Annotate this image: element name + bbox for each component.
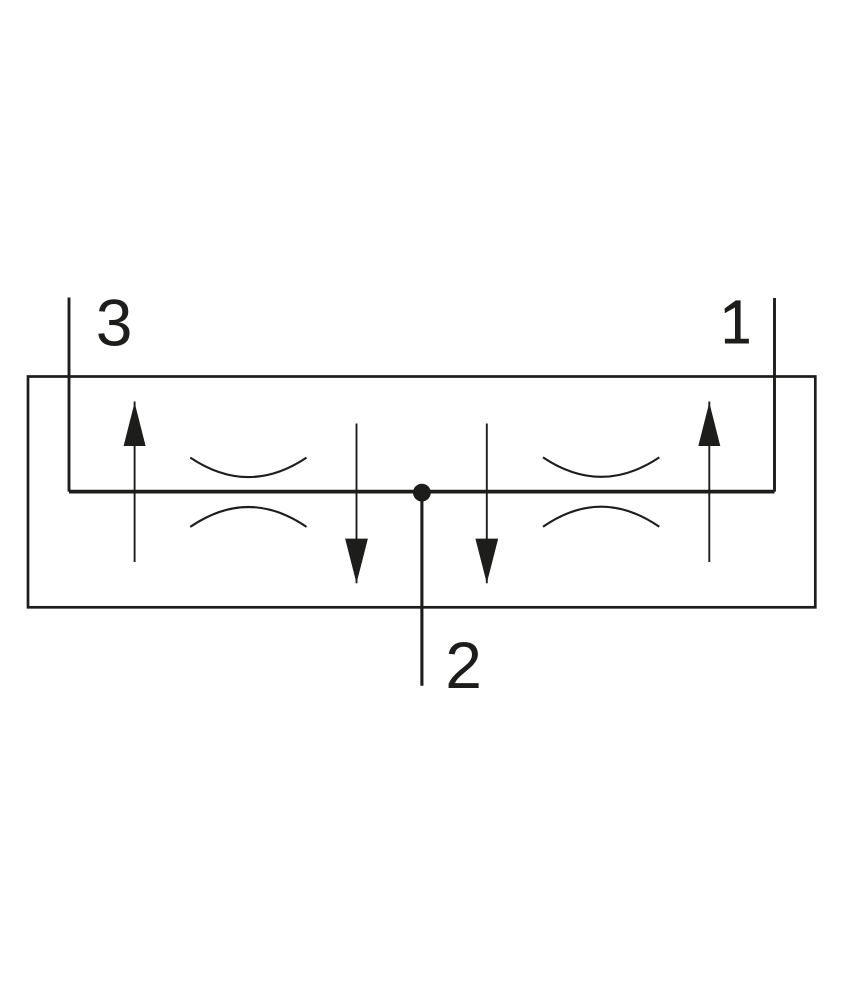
throttle upper curve left [190,458,306,477]
port 2 label [445,628,482,702]
down arrow right [475,424,498,584]
port 2 line [420,492,423,686]
port 3 line [68,298,71,492]
throttle lower curve left [190,507,306,527]
svg-text:2: 2 [445,628,482,702]
port 1 line [773,298,776,492]
up arrow left [124,402,146,563]
flow line (mid horizontal) [69,490,775,494]
port 1 label [725,300,749,343]
down arrow left [345,424,368,584]
valve body outline [28,377,815,608]
throttle lower curve right [543,507,659,527]
svg-text:3: 3 [96,286,133,360]
up arrow right [698,402,720,563]
throttle upper curve right [543,457,659,476]
port 3 label [96,286,133,360]
node junction [413,484,431,502]
